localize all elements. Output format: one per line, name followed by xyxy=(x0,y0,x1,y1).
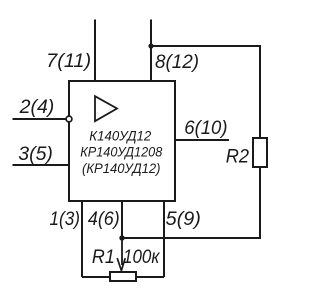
potentiometer R1 wiper arrowhead xyxy=(117,259,125,271)
svg-text:2(4): 2(4) xyxy=(19,97,55,118)
svg-text:5(9): 5(9) xyxy=(166,209,201,230)
svg-text:8(12): 8(12) xyxy=(155,52,199,73)
junction dot at wiper node 4(6) xyxy=(119,235,124,240)
svg-text:(КР140УД12): (КР140УД12) xyxy=(82,160,161,176)
svg-text:3(5): 3(5) xyxy=(18,144,53,165)
svg-text:100к: 100к xyxy=(123,247,160,268)
wire pin 5(9) xyxy=(163,201,165,277)
wire top branch to R2 xyxy=(151,46,260,139)
svg-text:4(6): 4(6) xyxy=(88,209,120,230)
op-amp U1 triangle symbol xyxy=(95,96,117,121)
wire pin 4(6) xyxy=(121,201,123,238)
svg-text:6(10): 6(10) xyxy=(184,118,227,139)
junction dot at pin 8(12) branch xyxy=(148,43,153,48)
wire pin 2(4) xyxy=(13,118,67,120)
svg-text:7(11): 7(11) xyxy=(46,51,91,72)
svg-text:R1: R1 xyxy=(92,247,115,268)
potentiometer R1 body xyxy=(110,272,136,281)
op-amp U1 body xyxy=(69,81,175,201)
wire pin 8(12) xyxy=(150,20,152,82)
wire pin 6(10) output xyxy=(176,139,229,141)
svg-text:К140УД12: К140УД12 xyxy=(89,128,151,144)
wire bottom branch R2 to wiper node xyxy=(122,167,260,238)
svg-text:R2: R2 xyxy=(226,146,250,167)
inversion circle at pin 2(4) xyxy=(66,116,72,122)
wire pin 3(5) xyxy=(13,164,69,166)
potentiometer R1 wiper arrow stem xyxy=(121,238,123,265)
wire pin 7(11) xyxy=(94,20,96,82)
wire bottom rail through R1 xyxy=(82,276,164,278)
svg-text:1(3): 1(3) xyxy=(50,209,81,230)
svg-text:КР140УД1208: КР140УД1208 xyxy=(80,144,162,160)
wire pin 1(3) xyxy=(81,201,83,277)
resistor R2 body xyxy=(253,138,267,167)
